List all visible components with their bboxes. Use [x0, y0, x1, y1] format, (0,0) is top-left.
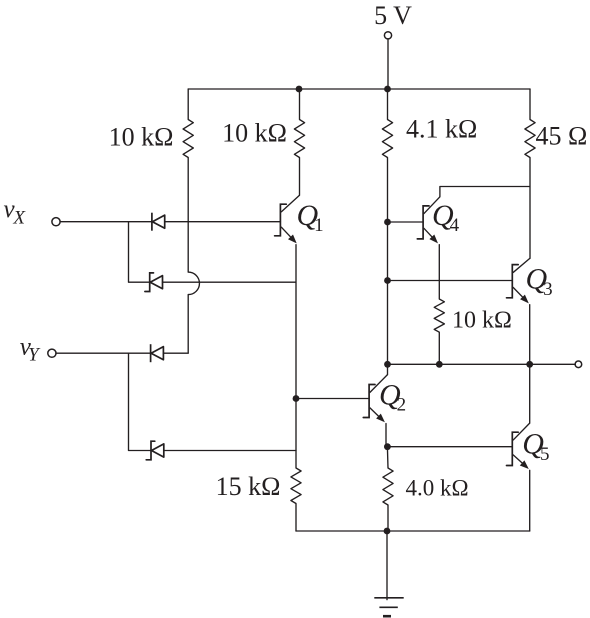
wire vX to D1 — [60, 221, 152, 223]
transistor Q4 — [417, 197, 440, 244]
wire R4 down to Q3 collector — [529, 158, 531, 259]
node top rail / R2 junction — [296, 86, 303, 93]
wire Q2 collector to output rail — [387, 364, 389, 374]
wire node to Q3 base — [388, 280, 513, 282]
svg-text:vY: vY — [20, 333, 41, 365]
wire hop down to D3 anode wire — [187, 295, 189, 353]
node Q2 base junction — [293, 395, 300, 402]
node Q2 emitter / Q5 base junction — [384, 443, 391, 450]
diode D4 (vY lower) — [146, 441, 164, 460]
transistor Q2 — [363, 375, 387, 423]
wire Q4 collector to 45 Ohm line — [440, 187, 530, 197]
ground — [374, 531, 403, 616]
svg-text:4.0 kΩ: 4.0 kΩ — [406, 476, 469, 501]
wire vY branch to D4 — [129, 353, 152, 450]
wire Q2 emitter down — [386, 424, 387, 447]
svg-text:Q3: Q3 — [526, 263, 553, 300]
svg-text:10 kΩ: 10 kΩ — [452, 308, 512, 334]
wire R6 to bottom rail — [295, 504, 297, 532]
svg-text:Q5: Q5 — [522, 428, 549, 465]
svg-text:Q1: Q1 — [297, 199, 324, 236]
svg-text:Q2: Q2 — [379, 378, 406, 415]
node R3 line / Q3 base junction — [384, 277, 391, 284]
node output rail / Q3-Q5 — [526, 361, 533, 368]
wire rail to R1 — [187, 89, 189, 120]
wire top rail — [188, 88, 530, 90]
wire vY to D3 — [56, 352, 151, 354]
wire R1 down to hop — [187, 158, 189, 273]
svg-text:5 V: 5 V — [374, 1, 412, 30]
wire D4 to Q2 base line — [164, 450, 296, 452]
node bottom rail / ground — [384, 528, 391, 535]
wire 5V to top rail — [387, 39, 389, 89]
node output rail / R5 — [436, 361, 443, 368]
resistor R1 10 kOhm — [183, 120, 193, 158]
terminal vY input — [48, 349, 56, 357]
wire R7 to bottom rail — [387, 505, 389, 531]
node R3 line / Q4 base junction — [384, 219, 391, 226]
wire node to R7 — [386, 447, 389, 468]
resistor R3 4.1 kOhm — [382, 120, 392, 158]
wire vX branch to D2 — [129, 222, 150, 283]
svg-text:4.1 kΩ: 4.1 kΩ — [406, 115, 477, 144]
node top rail / R3 junction — [384, 86, 391, 93]
resistor R7 4.0 kOhm — [383, 468, 393, 505]
resistor R5 10 kOhm — [434, 299, 444, 332]
wire node to Q4 base — [388, 221, 424, 223]
diode D3 (vY upper) — [151, 344, 164, 362]
svg-text:10 kΩ: 10 kΩ — [222, 119, 287, 148]
transistor Q5 — [507, 423, 530, 469]
wire bottom rail — [296, 530, 530, 532]
wire rail to R3 — [387, 89, 389, 120]
node output rail / Q2 collector — [384, 361, 391, 368]
wire Q1 emitter down to R6 — [295, 245, 297, 468]
svg-text:45 Ω: 45 Ω — [536, 122, 588, 151]
wire R3 down to output rail — [387, 158, 389, 365]
wire D2 to Q1 emitter line — [163, 281, 296, 283]
svg-text:Q4: Q4 — [432, 199, 460, 236]
wire D1 to Q1 base — [165, 221, 281, 223]
resistor R2 10 kOhm — [294, 120, 304, 158]
svg-text:vX: vX — [4, 196, 27, 229]
diode D2 (vX lower) — [145, 273, 163, 292]
wire hop over D2 wire — [188, 272, 199, 295]
wire output rail — [388, 363, 576, 365]
wire node to Q2 base — [296, 398, 369, 400]
diode D1 (vX upper) — [152, 213, 165, 231]
wire D3 to R1 line — [163, 352, 188, 354]
wire output rail to Q5 collector — [529, 364, 531, 423]
wire R5 to output rail — [438, 332, 440, 364]
wire Q5 emitter to bottom rail — [529, 470, 531, 531]
wire rail to R2 — [299, 89, 301, 120]
transistor Q3 — [507, 258, 530, 303]
wire node to Q5 base — [387, 446, 512, 448]
terminal 5V supply — [384, 32, 391, 39]
svg-text:10 kΩ: 10 kΩ — [109, 123, 174, 152]
transistor Q1 — [275, 195, 300, 243]
resistor R4 45 Ohm — [525, 120, 535, 158]
wire Q3 emitter to output rail — [529, 305, 531, 365]
svg-text:15 kΩ: 15 kΩ — [216, 472, 281, 501]
wire R2 to Q1 collector — [299, 158, 301, 196]
resistor R6 15 kOhm — [291, 468, 301, 504]
wire Q4 emitter to R5 — [438, 245, 440, 299]
wire rail to R4 — [529, 89, 531, 120]
terminal vX input — [52, 218, 60, 226]
terminal output — [575, 361, 582, 368]
